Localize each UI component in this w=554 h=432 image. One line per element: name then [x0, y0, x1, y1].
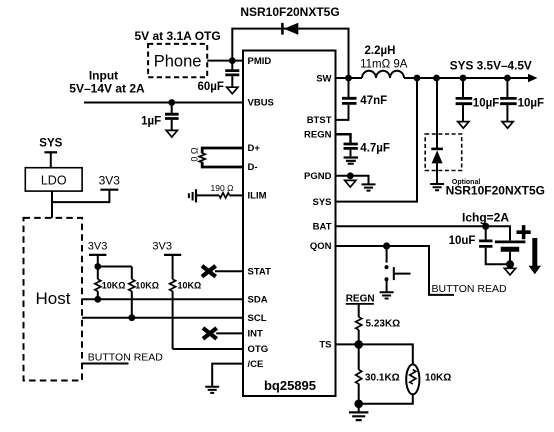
svg-text:SYS: SYS	[312, 197, 331, 208]
svg-text:TS: TS	[319, 340, 331, 351]
svg-text:REGN: REGN	[304, 130, 332, 141]
svg-text:SDA: SDA	[248, 295, 268, 306]
svg-text:BUTTON READ: BUTTON READ	[432, 283, 507, 295]
svg-text:190 Ω: 190 Ω	[211, 183, 234, 193]
svg-text:SYS 3.5V–4.5V: SYS 3.5V–4.5V	[450, 58, 532, 72]
svg-text:SYS: SYS	[39, 138, 62, 150]
svg-text:10µF: 10µF	[473, 97, 499, 109]
svg-text:2.2µH: 2.2µH	[365, 45, 396, 57]
svg-text:ILIM: ILIM	[248, 191, 267, 202]
svg-text:3V3: 3V3	[99, 174, 121, 188]
svg-text:Ichg=2A: Ichg=2A	[462, 211, 509, 225]
svg-text:QON: QON	[310, 241, 332, 252]
svg-text:INT: INT	[248, 329, 264, 340]
svg-text:11mΩ 9A: 11mΩ 9A	[360, 59, 408, 71]
svg-text:NSR10F20NXT5G: NSR10F20NXT5G	[446, 184, 545, 198]
svg-text:1µF: 1µF	[141, 116, 161, 128]
svg-text:5V at 3.1A OTG: 5V at 3.1A OTG	[134, 29, 220, 43]
svg-text:/CE: /CE	[248, 359, 264, 370]
svg-text:5.23KΩ: 5.23KΩ	[366, 318, 401, 329]
svg-text:Phone: Phone	[154, 53, 202, 71]
svg-text:10KΩ: 10KΩ	[178, 281, 202, 291]
svg-text:10µF: 10µF	[518, 97, 544, 109]
svg-text:VBUS: VBUS	[248, 98, 274, 109]
svg-text:10KΩ: 10KΩ	[135, 281, 159, 291]
svg-text:OTG: OTG	[248, 344, 269, 355]
svg-text:NSR10F20NXT5G: NSR10F20NXT5G	[240, 5, 339, 19]
svg-text:3V3: 3V3	[152, 241, 172, 253]
svg-text:10uF: 10uF	[449, 235, 476, 247]
svg-text:4.7µF: 4.7µF	[360, 142, 390, 154]
svg-text:10KΩ: 10KΩ	[102, 281, 126, 291]
svg-text:Input: Input	[89, 69, 118, 83]
svg-text:D+: D+	[248, 143, 261, 154]
svg-text:SW: SW	[316, 73, 331, 84]
svg-text:SCL: SCL	[248, 313, 267, 324]
svg-text:BAT: BAT	[313, 222, 332, 233]
svg-text:REGN: REGN	[346, 293, 375, 304]
svg-text:0 Ω: 0 Ω	[190, 147, 200, 162]
svg-text:10KΩ: 10KΩ	[425, 373, 451, 384]
svg-text:3V3: 3V3	[88, 241, 108, 253]
svg-text:PMID: PMID	[248, 56, 272, 67]
svg-text:Host: Host	[36, 289, 71, 308]
svg-text:BTST: BTST	[307, 115, 332, 126]
svg-text:5V–14V at 2A: 5V–14V at 2A	[69, 82, 145, 96]
svg-text:LDO: LDO	[41, 174, 67, 188]
svg-text:PGND: PGND	[304, 171, 332, 182]
svg-text:30.1KΩ: 30.1KΩ	[365, 373, 400, 384]
svg-text:BUTTON READ: BUTTON READ	[88, 351, 163, 363]
svg-text:47nF: 47nF	[360, 95, 387, 107]
svg-text:60µF: 60µF	[198, 81, 224, 93]
svg-text:bq25895: bq25895	[264, 378, 316, 393]
svg-text:STAT: STAT	[248, 267, 272, 278]
svg-text:D-: D-	[248, 162, 258, 173]
